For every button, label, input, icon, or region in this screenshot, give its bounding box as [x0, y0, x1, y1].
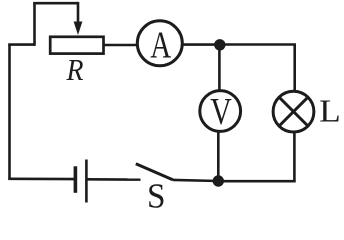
- svg-text:A: A: [150, 24, 171, 66]
- wire: bottom-right run from node to corner: [218, 180, 295, 183]
- svg-text:S: S: [147, 177, 166, 210]
- wire: horizontal jog to riser: [8, 43, 34, 46]
- svg-text:R: R: [66, 52, 84, 87]
- wire: riser up to top rail: [33, 3, 36, 46]
- wire: battery to switch contact: [86, 178, 140, 181]
- resistor R (rheostat body): [50, 37, 103, 54]
- lamp L circle: [273, 91, 314, 132]
- lamp cross: [279, 97, 308, 126]
- ammeter A circle: [137, 21, 182, 66]
- switch S lever (open): [136, 164, 173, 180]
- battery: short thick plate: [74, 166, 78, 193]
- battery: long thin plate: [85, 160, 88, 203]
- junction node (bottom): [213, 175, 224, 186]
- wire: top node to top-right corner and down to lamp: [220, 45, 295, 91]
- wire: lamp bottom to bottom-right corner: [293, 132, 296, 181]
- wire: ammeter to top node: [183, 43, 220, 46]
- wire: voltmeter branch top: [218, 45, 221, 90]
- wire: voltmeter branch bottom: [217, 132, 220, 181]
- wire: top rail to wiper drop: [33, 2, 78, 5]
- junction node (top): [214, 39, 225, 50]
- svg-text:V: V: [210, 91, 232, 133]
- voltmeter V circle: [200, 91, 241, 132]
- wire: rheostat to ammeter: [104, 44, 138, 47]
- wire: switch pivot to bottom node: [173, 180, 218, 181]
- wire: left vertical side: [8, 45, 11, 179]
- rheostat wiper arrow: [74, 2, 83, 35]
- svg-text:L: L: [319, 93, 341, 129]
- wire: bottom-left run to battery: [8, 178, 74, 181]
